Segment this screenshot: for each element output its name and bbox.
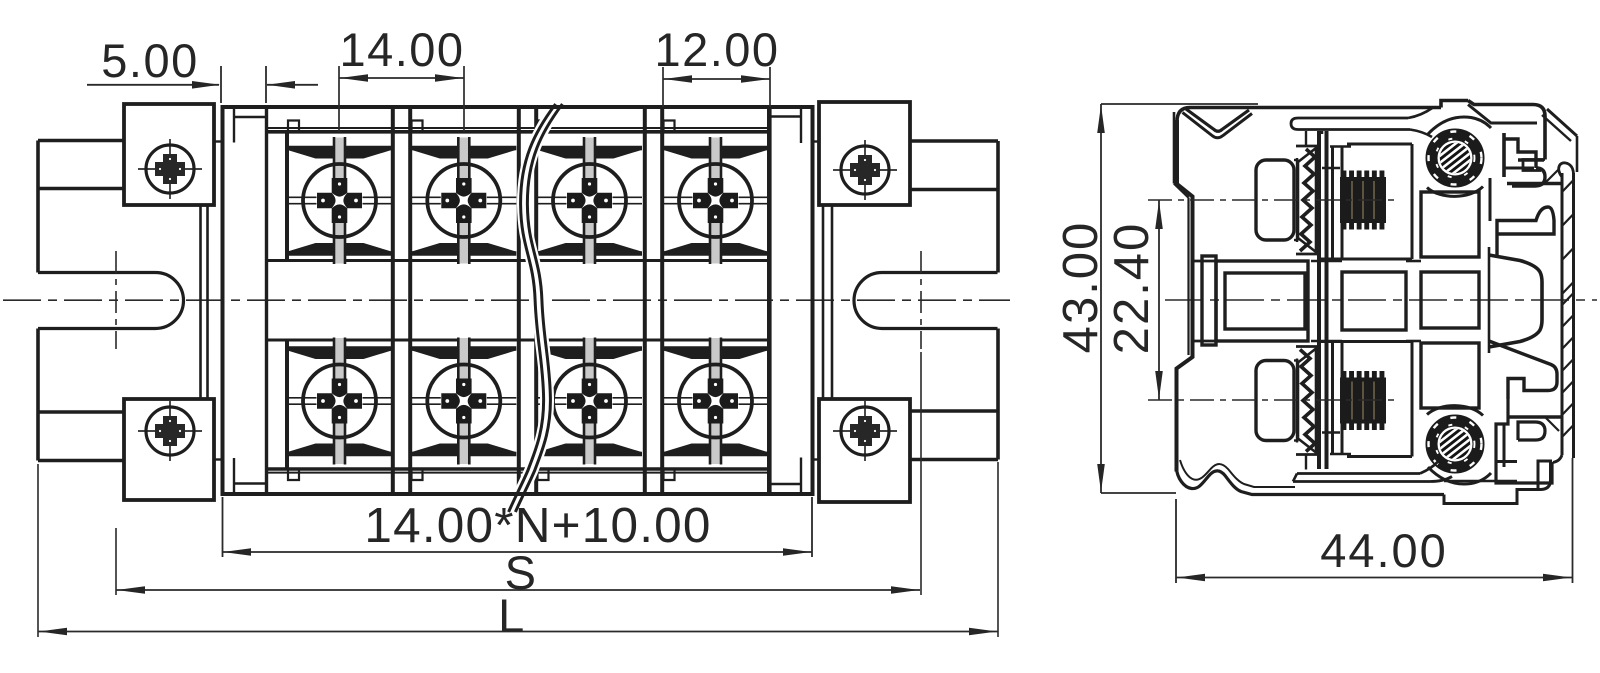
svg-text:44.00: 44.00 xyxy=(1320,524,1448,577)
svg-text:14.00: 14.00 xyxy=(339,23,464,76)
svg-text:12.00: 12.00 xyxy=(654,23,779,76)
svg-text:43.00: 43.00 xyxy=(1054,221,1108,354)
svg-text:22.40: 22.40 xyxy=(1105,222,1159,355)
svg-text:L: L xyxy=(498,589,526,642)
svg-text:14.00*N+10.00: 14.00*N+10.00 xyxy=(364,498,711,553)
svg-text:5.00: 5.00 xyxy=(101,34,198,87)
